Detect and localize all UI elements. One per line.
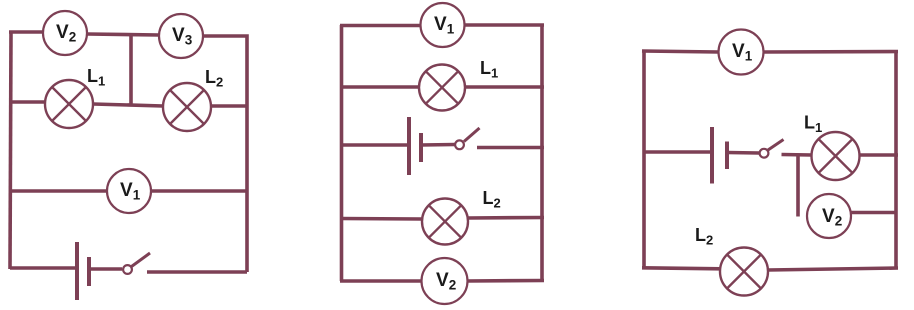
svg-text:V3: V3 bbox=[172, 25, 193, 48]
svg-text:L2: L2 bbox=[483, 188, 501, 211]
svg-text:L1: L1 bbox=[480, 58, 498, 81]
svg-text:L1: L1 bbox=[804, 113, 822, 136]
svg-text:L2: L2 bbox=[695, 225, 713, 248]
svg-text:V1: V1 bbox=[732, 41, 753, 64]
svg-text:V1: V1 bbox=[120, 180, 141, 203]
svg-text:V2: V2 bbox=[436, 270, 456, 293]
svg-text:V2: V2 bbox=[822, 206, 842, 229]
svg-text:L1: L1 bbox=[87, 66, 105, 89]
svg-text:V1: V1 bbox=[434, 14, 455, 37]
svg-text:L2: L2 bbox=[205, 67, 223, 90]
svg-text:V2: V2 bbox=[56, 22, 76, 45]
